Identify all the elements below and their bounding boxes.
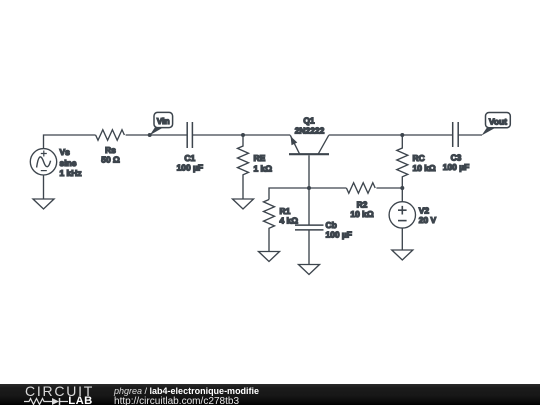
- logo CIRCUIT text: [25, 386, 94, 397]
- node dot at RE top: [241, 133, 245, 137]
- svg-text:R2: R2: [357, 200, 368, 210]
- wire collector to C3: [329, 134, 452, 136]
- svg-text:100 µF: 100 µF: [443, 162, 469, 172]
- capacitor C3: [453, 122, 459, 147]
- svg-text:4 kΩ: 4 kΩ: [280, 215, 299, 225]
- flag Vin: [150, 112, 173, 135]
- flag Vout: [482, 113, 511, 136]
- wire Cb to ground: [308, 231, 310, 265]
- svg-text:V2: V2: [419, 205, 430, 215]
- node dot base: [307, 186, 311, 190]
- resistor RE: [238, 135, 249, 199]
- svg-text:C3: C3: [451, 153, 462, 163]
- resistor R1: [264, 200, 275, 252]
- svg-text:1 kHz: 1 kHz: [60, 168, 82, 178]
- ground (Cb): [299, 265, 320, 275]
- svg-text:RE: RE: [254, 153, 266, 163]
- svg-text:100 µF: 100 µF: [177, 162, 203, 172]
- svg-text:Vs: Vs: [60, 147, 71, 157]
- wire Vs bottom: [43, 175, 45, 199]
- svg-text:Vout: Vout: [489, 116, 507, 126]
- svg-text:1 kΩ: 1 kΩ: [254, 164, 273, 174]
- wire C1 to Q1 emitter: [192, 134, 290, 136]
- footer line 1: [114, 387, 259, 396]
- svg-text:10 kΩ: 10 kΩ: [350, 209, 373, 219]
- svg-text:50 Ω: 50 Ω: [101, 155, 120, 165]
- svg-text:20 V: 20 V: [419, 215, 437, 225]
- logo LAB text: [68, 396, 92, 405]
- ground (RE): [233, 199, 254, 209]
- logo squiggle: [24, 397, 70, 405]
- svg-text:2N2222: 2N2222: [295, 125, 325, 135]
- svg-text:Cb: Cb: [326, 220, 337, 230]
- svg-text:sine: sine: [60, 158, 77, 168]
- ground (R1): [259, 252, 280, 262]
- voltage source Vs: [30, 149, 56, 175]
- node dot RC top: [400, 133, 404, 137]
- svg-text:10 kΩ: 10 kΩ: [413, 163, 436, 173]
- node Vin dot: [148, 133, 152, 137]
- ground (V2): [392, 250, 413, 260]
- svg-text:Q1: Q1: [303, 116, 315, 126]
- svg-text:RC: RC: [413, 153, 425, 163]
- wire Vs top: [44, 135, 96, 149]
- ground (Vs): [33, 199, 54, 209]
- resistor R2: [346, 183, 375, 194]
- svg-text:100 µF: 100 µF: [326, 230, 352, 240]
- wire Rs to C1: [126, 134, 188, 136]
- node dot RC bottom: [400, 186, 404, 190]
- capacitor Cb: [295, 225, 324, 230]
- wire base node left to R1: [269, 188, 309, 200]
- footer bar: [0, 384, 540, 405]
- voltage source V2: [389, 188, 415, 250]
- transistor Q1: [289, 135, 329, 188]
- resistor Rs: [96, 130, 125, 141]
- svg-text:Rs: Rs: [105, 145, 116, 155]
- wire base node right to R2: [309, 187, 346, 189]
- capacitor C1: [187, 122, 192, 148]
- svg-text:Vin: Vin: [157, 116, 170, 126]
- footer line 2: [114, 397, 239, 405]
- wire base node down to Cb: [308, 188, 310, 225]
- wire R2 to node: [376, 187, 402, 189]
- resistor RC: [397, 135, 408, 188]
- wire C3 to Vout: [458, 134, 482, 136]
